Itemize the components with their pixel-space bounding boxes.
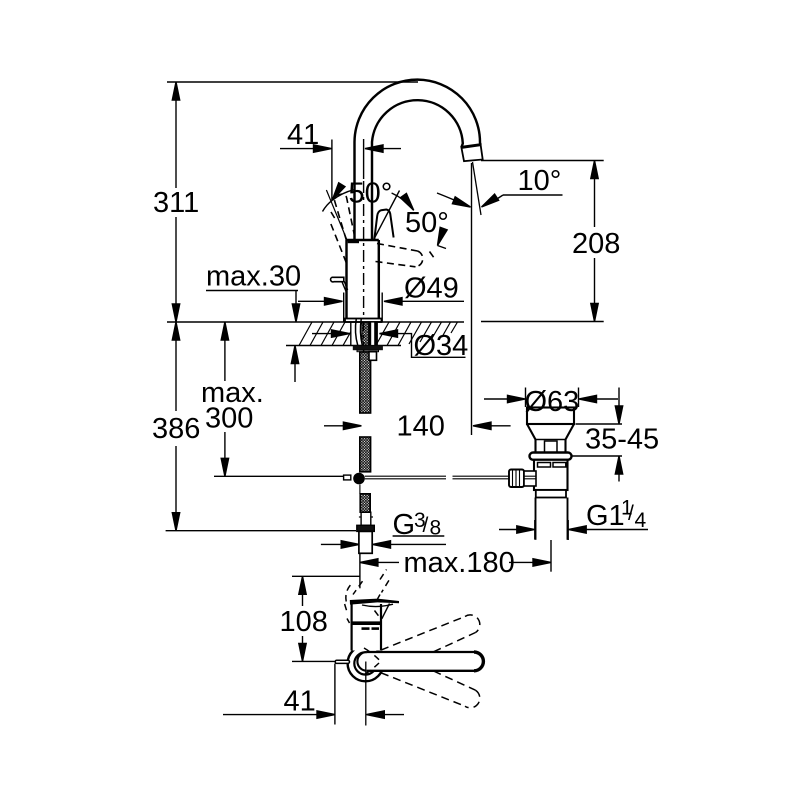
svg-text:Ø34: Ø34 [414,330,469,362]
svg-text:G1: G1 [586,500,625,532]
spout inner curve [372,100,463,240]
svg-text:300: 300 [205,403,253,435]
svg-text:41: 41 [284,686,316,718]
hatching right of hole [377,322,389,343]
pop-up rod [344,473,509,485]
hole edges [350,322,352,346]
water jet line [473,162,482,215]
svg-text:108: 108 [280,606,328,638]
clamp screw [509,470,524,488]
top reference extension line [167,81,418,83]
drain dimensions [484,386,659,540]
dimension max.300 [221,322,228,476]
dimension 386 [172,322,179,531]
svg-text:10°: 10° [518,165,562,197]
dashed handle (rotated) [345,570,389,624]
svg-text:Ø63: Ø63 [525,386,580,418]
lever plate [350,599,399,605]
svg-text:386: 386 [152,413,200,445]
svg-text:4: 4 [635,509,647,532]
o63 [525,388,527,408]
spout outer curve [355,80,481,240]
dimension 311 [172,82,179,322]
neck [352,604,381,651]
G1 1/4 [534,520,536,540]
flexible hose down to G3/8 [357,352,377,554]
aerator tip [461,145,482,162]
svg-text:/: / [628,502,634,525]
svg-text:max.180: max.180 [404,547,515,579]
dimension 208 [481,160,604,162]
pop-up knob on body [331,277,344,282]
dimension o34 [312,333,332,335]
svg-text:Ø49: Ø49 [404,273,459,305]
386 bottom reference line [166,530,356,532]
svg-text:max.30: max.30 [206,261,301,293]
max.300 bottom ref line merging with pop-up rod left line [214,475,344,477]
solid lever (tilted) [374,210,393,240]
svg-text:311: 311 [153,187,199,219]
35-45 [576,423,623,425]
dimension 140 [471,163,473,435]
mounting nut under deck [353,346,383,351]
41 bottom right extension over bar [365,662,367,726]
body [347,239,379,241]
svg-text:/: / [423,514,429,537]
svg-text:140: 140 [397,411,445,443]
svg-text:35-45: 35-45 [585,424,659,456]
spout bar (top view) [367,652,484,671]
dimension o49 [298,300,325,302]
centre line (dash-dot) of faucet [363,181,365,352]
svg-text:208: 208 [572,228,620,260]
hatching left of hole [299,322,458,346]
dashed spout swivel positions [364,615,480,708]
body circles [348,646,384,682]
shank parts in the hole [355,319,376,346]
tab (pop-up rod from top) [335,660,349,663]
dashed lever positions [331,194,435,267]
